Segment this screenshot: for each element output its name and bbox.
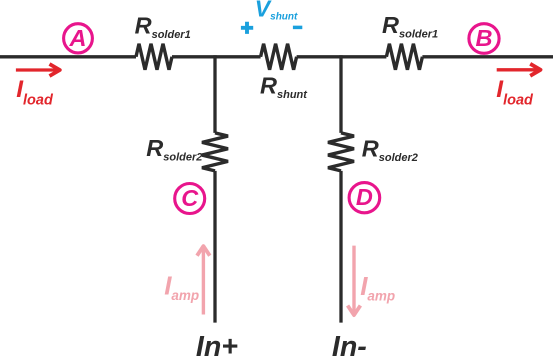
svg-text:Iload: Iload [16,76,54,108]
arrow I_amp (left, pink, pointing up) [197,246,210,314]
arrow I_load (right, red, pointing right) [497,64,541,76]
node C circle [175,184,205,214]
minus sign of V_shunt [293,26,302,30]
resistor R_solder2 (left) vertical zigzag [202,133,228,171]
resistor R_shunt zigzag [261,44,297,70]
svg-text:Rsolder1: Rsolder1 [135,13,191,42]
arrow I_amp (right, pink, pointing down) [348,246,361,316]
svg-text:Rshunt: Rshunt [260,72,308,101]
svg-text:In+: In+ [196,331,238,356]
plus sign of V_shunt [241,22,253,34]
resistor R_solder1 (left) zigzag [136,44,172,70]
svg-text:A: A [69,25,87,51]
wire left vertical upper (junction to R_solder2 left) [213,55,216,133]
wire top horizontal segment 4 (R_solder1 right to right edge) [422,55,553,58]
arrow I_load (left, red, pointing right) [16,64,60,76]
svg-text:Rsolder2: Rsolder2 [362,135,418,164]
svg-text:Vshunt: Vshunt [255,0,298,23]
node A circle [64,24,93,53]
svg-text:Iload: Iload [496,76,534,108]
svg-text:Iamp: Iamp [360,271,395,303]
resistor R_solder1 (right) zigzag [386,44,422,70]
node B circle [469,24,499,54]
svg-text:B: B [476,25,493,51]
svg-text:Rsolder2: Rsolder2 [146,135,202,164]
svg-text:D: D [356,184,373,210]
svg-text:Iamp: Iamp [164,271,199,303]
wire right vertical lower (R_solder2 right to In-) [339,171,342,323]
wire top horizontal segment 3 (R_shunt to R_solder1 right) [297,55,387,58]
node D circle [349,183,380,213]
svg-text:Rsolder1: Rsolder1 [382,12,438,41]
wire right vertical upper (junction to R_solder2 right) [339,55,342,133]
svg-text:C: C [181,185,199,211]
wire top horizontal segment 1 (left edge to R_solder1 left) [0,55,136,58]
wire top horizontal segment 2 (R_solder1 left to R_shunt) [172,55,261,58]
svg-text:In-: In- [332,331,367,356]
resistor R_solder2 (right) vertical zigzag [328,133,354,171]
wire left vertical lower (R_solder2 left to In+) [213,171,216,323]
